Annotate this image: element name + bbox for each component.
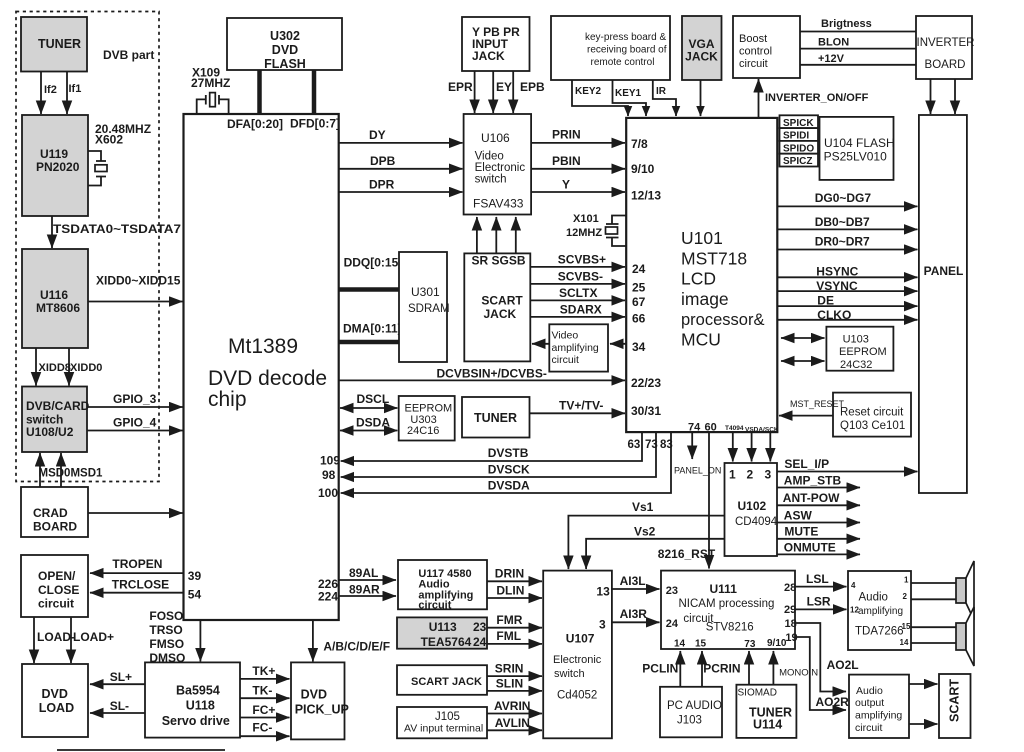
svg-text:U118: U118 — [186, 699, 215, 713]
svg-text:DCVBSIN+/DCVBS-: DCVBSIN+/DCVBS- — [437, 367, 547, 381]
svg-text:processor&: processor& — [681, 311, 764, 329]
svg-text:67: 67 — [632, 295, 646, 309]
svg-text:Mt1389: Mt1389 — [228, 335, 298, 358]
svg-text:SCART: SCART — [481, 293, 523, 307]
svg-text:34: 34 — [632, 340, 646, 354]
jack J105 AV input terminal — [397, 707, 487, 738]
amplifier TDA7266 Audio amplifying — [848, 571, 911, 650]
wire DG0~DG7 — [777, 191, 917, 206]
wire 89AR — [339, 583, 396, 597]
wire PBIN — [531, 154, 625, 169]
tuner TUNER (DVB) — [21, 17, 87, 72]
svg-text:INVERTER_ON/OFF: INVERTER_ON/OFF — [765, 92, 869, 104]
wire speaker1 pin2 — [911, 598, 956, 600]
wire Vs1 — [568, 500, 724, 569]
svg-text:TK+: TK+ — [252, 664, 275, 678]
wire GPIO_4 — [87, 416, 183, 431]
svg-text:9/10: 9/10 — [631, 162, 655, 176]
tuner U114 — [736, 685, 796, 738]
svg-text:DPR: DPR — [369, 178, 395, 192]
bus DMA[0:11] — [339, 322, 402, 343]
svg-text:AMP_STB: AMP_STB — [784, 473, 842, 487]
svg-text:TRCLOSE: TRCLOSE — [112, 578, 169, 592]
IC U119 PN2020 — [22, 115, 88, 216]
svg-text:circuit: circuit — [855, 722, 883, 734]
svg-text:DE: DE — [817, 294, 834, 308]
svg-text:DVD decode: DVD decode — [208, 367, 327, 390]
wire speaker1 pin1 — [911, 582, 956, 584]
eeprom U303 24C16 — [399, 396, 455, 441]
wire FC+ — [240, 703, 290, 718]
svg-text:DVSTB: DVSTB — [488, 446, 529, 460]
svg-text:TUNER: TUNER — [38, 37, 81, 51]
wire PCLIN — [642, 651, 680, 687]
svg-text:SCVBS+: SCVBS+ — [558, 252, 606, 266]
svg-text:DLIN: DLIN — [496, 584, 524, 598]
wire speaker2 pin15 — [911, 626, 956, 628]
wire SG — [495, 217, 497, 253]
speaker bottom — [956, 607, 974, 666]
svg-text:Brigtness: Brigtness — [821, 18, 872, 30]
svg-text:Ba5954: Ba5954 — [176, 684, 220, 698]
circuit Reset Q103 Ce101 — [833, 393, 911, 437]
svg-text:89AL: 89AL — [349, 566, 378, 580]
svg-text:24C16: 24C16 — [407, 425, 439, 437]
svg-text:AI3R: AI3R — [620, 607, 648, 621]
svg-text:FC-: FC- — [252, 721, 272, 735]
svg-text:JACK: JACK — [472, 49, 505, 63]
wire inverter to panel right — [954, 79, 956, 114]
svg-text:SR SGSB: SR SGSB — [472, 254, 526, 268]
svg-text:Audio: Audio — [856, 685, 883, 697]
wire U102 pin3 — [769, 432, 771, 461]
pin cell SPICZ — [780, 154, 819, 168]
svg-text:39: 39 — [188, 569, 202, 583]
wire EPR — [448, 71, 475, 113]
wire DSDA — [340, 416, 397, 431]
svg-text:ASW: ASW — [784, 508, 813, 522]
svg-text:CLKO: CLKO — [817, 308, 851, 322]
svg-text:4: 4 — [851, 581, 856, 590]
svg-text:TK-: TK- — [252, 684, 272, 698]
svg-text:23: 23 — [666, 585, 678, 597]
wire FOSO TRSO FMSO DMSO — [149, 609, 200, 665]
svg-text:PN2020: PN2020 — [36, 160, 80, 174]
svg-text:28: 28 — [784, 582, 796, 594]
jack SCART (output) — [939, 674, 971, 738]
svg-text:circuit: circuit — [552, 354, 580, 366]
wire Y — [531, 178, 625, 193]
svg-text:DB0~DB7: DB0~DB7 — [815, 215, 870, 229]
svg-text:GPIO_3: GPIO_3 — [113, 392, 157, 406]
svg-text:BOARD: BOARD — [33, 520, 77, 534]
svg-text:12MHZ: 12MHZ — [566, 227, 602, 239]
wire SRIN — [487, 662, 542, 677]
wire SB — [515, 217, 517, 253]
svg-text:NICAM processing: NICAM processing — [679, 598, 775, 610]
svg-text:SIOMAD: SIOMAD — [738, 688, 777, 699]
wire U103 bus lower — [781, 360, 825, 362]
svg-text:24: 24 — [666, 618, 679, 630]
board CRAD BOARD — [21, 487, 88, 537]
svg-text:LSR: LSR — [807, 595, 831, 609]
pin cell SPIDO — [780, 141, 819, 155]
svg-text:DVB part: DVB part — [103, 48, 154, 62]
svg-text:TUNER: TUNER — [474, 411, 517, 425]
jack SCART JACK (audio) — [397, 665, 487, 695]
svg-text:U116: U116 — [40, 288, 68, 302]
shift register U102 CD4094 — [725, 463, 778, 556]
svg-text:7/8: 7/8 — [631, 137, 648, 151]
svg-text:image: image — [681, 289, 729, 309]
svg-text:U111: U111 — [710, 582, 738, 596]
driver Ba5954 U118 Servo drive — [145, 662, 240, 737]
svg-text:DFD[0:7]: DFD[0:7] — [290, 117, 340, 131]
wire FMR — [487, 613, 542, 628]
wire XIDD8 — [36, 348, 71, 386]
svg-text:PBIN: PBIN — [552, 154, 581, 168]
wire PANEL_ON — [674, 432, 721, 475]
IC U116 MT8606 — [22, 249, 88, 348]
wire TRCLOSE — [90, 578, 184, 593]
circuit Audio output amplifying — [849, 675, 909, 738]
svg-text:MSD0MSD1: MSD0MSD1 — [39, 468, 104, 480]
wire XIDD0 — [69, 348, 102, 386]
svg-text:1: 1 — [729, 468, 736, 482]
svg-text:LCD: LCD — [681, 269, 716, 289]
svg-text:2: 2 — [747, 468, 754, 482]
wire inverter to panel left — [930, 79, 932, 114]
svg-text:24: 24 — [473, 635, 487, 649]
svg-text:CD4094: CD4094 — [735, 516, 778, 528]
svg-text:13: 13 — [596, 585, 610, 599]
svg-text:AVLIN: AVLIN — [495, 716, 530, 730]
svg-text:73: 73 — [744, 639, 756, 650]
svg-text:DDQ[0:15]: DDQ[0:15] — [344, 256, 403, 270]
svg-text:DY: DY — [369, 128, 386, 142]
svg-text:Audio: Audio — [859, 592, 888, 604]
svg-text:U103: U103 — [843, 334, 869, 346]
wire CLKO — [777, 308, 917, 322]
svg-text:output: output — [855, 697, 884, 709]
svg-text:SDARX: SDARX — [560, 302, 602, 316]
svg-text:3: 3 — [599, 618, 606, 632]
svg-text:19: 19 — [785, 632, 797, 644]
svg-text:control: control — [739, 46, 772, 58]
svg-text:circuit: circuit — [739, 58, 768, 70]
svg-text:amplifying: amplifying — [855, 710, 902, 722]
wire DR0~DR7 — [777, 234, 917, 249]
circuit Boost control — [733, 16, 800, 78]
svg-text:MCU: MCU — [681, 330, 721, 350]
pickup DVD PICK_UP — [291, 662, 349, 739]
svg-text:U113: U113 — [429, 620, 457, 634]
svg-text:U301: U301 — [411, 285, 440, 299]
wire ANT-POW — [777, 491, 860, 505]
svg-text:SCART: SCART — [948, 679, 962, 722]
wire SLIN — [487, 677, 542, 691]
sdram U301 SDRAM — [399, 252, 450, 362]
wire EY — [493, 71, 512, 113]
svg-text:27MHZ: 27MHZ — [191, 76, 230, 90]
svg-text:DVD: DVD — [301, 688, 327, 702]
svg-text:If2: If2 — [44, 84, 57, 96]
wire XIDD0~XIDD15 — [88, 274, 183, 302]
wire LOAD- — [34, 617, 75, 663]
wire Brigtness — [800, 18, 916, 32]
wire MSD0 — [39, 453, 41, 487]
svg-text:DVSCK: DVSCK — [488, 463, 530, 477]
wire U102 pin1 — [732, 432, 734, 461]
wire DRIN — [487, 567, 542, 582]
svg-text:EPR: EPR — [448, 80, 473, 94]
svg-text:TV+/TV-: TV+/TV- — [559, 399, 603, 413]
wire AVRIN — [487, 699, 542, 714]
svg-text:VSDA/SCK: VSDA/SCK — [745, 427, 779, 434]
wire U102 pin2 — [751, 432, 753, 461]
wire AI3L — [612, 574, 660, 589]
wire FML — [487, 629, 542, 644]
svg-text:TSDATA0~TSDATA7: TSDATA0~TSDATA7 — [53, 222, 181, 236]
wire PCRIN — [702, 651, 741, 687]
svg-text:DR0~DR7: DR0~DR7 — [815, 234, 870, 248]
wire audio out to scart upper — [909, 683, 938, 685]
wire U103 bus upper — [781, 337, 825, 339]
svg-text:CLOSE: CLOSE — [38, 583, 79, 597]
wire SCVBS- — [530, 269, 625, 284]
wire MSD1 — [39, 453, 104, 487]
svg-text:DFA[0:20]: DFA[0:20] — [227, 117, 283, 131]
svg-text:JACK: JACK — [685, 50, 718, 64]
wire speaker2 pin14 — [911, 642, 956, 644]
svg-text:ONMUTE: ONMUTE — [784, 540, 836, 554]
wire DLIN — [487, 584, 542, 599]
jack PC AUDIO J103 — [660, 687, 722, 738]
wire SIOMAD to pin73 — [748, 651, 750, 685]
tuner U113 TEA5764 — [397, 617, 487, 649]
svg-text:SL+: SL+ — [110, 670, 132, 684]
svg-text:24: 24 — [632, 262, 646, 276]
border bottom line — [57, 749, 225, 751]
svg-text:XIDD0: XIDD0 — [70, 362, 102, 374]
svg-text:Reset circuit: Reset circuit — [840, 407, 904, 419]
svg-text:8216_RST: 8216_RST — [658, 547, 716, 561]
svg-text:TROPEN: TROPEN — [112, 557, 162, 571]
svg-text:SEL_I/P: SEL_I/P — [784, 457, 829, 471]
svg-text:KEY2: KEY2 — [575, 86, 602, 97]
svg-text:TEA5764: TEA5764 — [421, 635, 472, 649]
pin cell SPIDI — [780, 128, 819, 142]
svg-text:24C32: 24C32 — [840, 359, 872, 371]
speaker top — [956, 561, 974, 620]
bus DFA to U302 — [257, 70, 262, 114]
wire KEY1 — [613, 80, 647, 116]
svg-text:MT8606: MT8606 — [36, 301, 80, 315]
wire +12V — [800, 53, 916, 65]
svg-text:X602: X602 — [95, 133, 123, 147]
svg-text:LSL: LSL — [806, 572, 829, 586]
wire EPB — [513, 71, 545, 113]
svg-text:FMR: FMR — [496, 613, 522, 627]
svg-text:U102: U102 — [738, 499, 767, 513]
circuit Video amplifying — [549, 324, 608, 371]
svg-text:PC AUDIO: PC AUDIO — [667, 700, 722, 712]
svg-text:VSYNC: VSYNC — [816, 279, 858, 293]
svg-text:AV input terminal: AV input terminal — [404, 723, 483, 735]
wire TROPEN — [90, 557, 184, 573]
svg-text:AI3L: AI3L — [620, 574, 646, 588]
wire SEL_I/P — [777, 457, 918, 472]
svg-text:FC+: FC+ — [252, 703, 275, 717]
wire If1 — [67, 72, 81, 115]
svg-text:key-press board &: key-press board & — [585, 32, 666, 43]
svg-text:XIDD8: XIDD8 — [39, 362, 71, 374]
svg-text:remote control: remote control — [591, 57, 655, 68]
svg-text:FSAV433: FSAV433 — [473, 197, 524, 211]
svg-text:SCLTX: SCLTX — [559, 286, 597, 300]
svg-text:SCVBS-: SCVBS- — [558, 269, 603, 283]
svg-text:GPIO_4: GPIO_4 — [113, 416, 157, 430]
svg-text:TRSO: TRSO — [149, 623, 182, 637]
wire LOAD+ — [71, 617, 114, 663]
svg-text:U101: U101 — [681, 228, 723, 248]
tuner TUNER (analog) — [462, 397, 530, 438]
wire TV+/TV- — [530, 399, 626, 414]
circuit U117 4580 Audio amplifying — [398, 560, 487, 612]
wire AMP_STB — [777, 473, 860, 487]
svg-text:CRAD: CRAD — [33, 506, 68, 520]
pin cell SPICK — [780, 115, 819, 129]
wire SL+ — [90, 670, 145, 684]
svg-text:KEY1: KEY1 — [615, 88, 642, 99]
wire MST_RESET — [779, 399, 845, 416]
svg-text:3: 3 — [765, 468, 772, 482]
svg-text:U106: U106 — [481, 131, 510, 145]
svg-text:SCART JACK: SCART JACK — [411, 676, 482, 688]
wire AVLIN — [487, 716, 542, 730]
wire AO2L — [795, 623, 859, 692]
wire ASW — [777, 508, 860, 522]
svg-text:STV8216: STV8216 — [706, 622, 754, 634]
svg-text:Y: Y — [562, 178, 570, 192]
svg-text:DVD: DVD — [42, 687, 68, 701]
svg-text:U107: U107 — [566, 632, 595, 646]
wire SL- — [90, 699, 145, 713]
svg-text:100: 100 — [318, 486, 338, 500]
svg-text:chip: chip — [208, 388, 247, 411]
wire TSDATA0~TSDATA7 — [52, 216, 181, 248]
wire CRAD BOARD to Mt1389 — [88, 512, 183, 514]
svg-text:74: 74 — [688, 422, 701, 434]
svg-text:HSYNC: HSYNC — [816, 265, 858, 279]
svg-text:29: 29 — [784, 604, 796, 616]
wire DVSCK — [341, 432, 656, 477]
svg-text:2: 2 — [903, 592, 908, 601]
svg-text:TDA7266: TDA7266 — [855, 626, 904, 638]
svg-text:MUTE: MUTE — [784, 525, 818, 539]
svg-text:EEPROM: EEPROM — [405, 403, 453, 415]
svg-text:22/23: 22/23 — [631, 376, 661, 390]
svg-text:switch: switch — [475, 174, 507, 186]
wire 89AL — [339, 566, 396, 580]
svg-text:DMA[0:11]: DMA[0:11] — [343, 322, 402, 336]
svg-text:DPB: DPB — [370, 154, 396, 168]
svg-text:PANEL_ON: PANEL_ON — [674, 466, 721, 476]
wire BLON — [800, 37, 916, 49]
wire VGA JACK to U101 — [700, 80, 702, 116]
svg-text:J103: J103 — [677, 715, 702, 727]
wire TK- — [240, 684, 290, 699]
board PANEL — [919, 115, 967, 493]
svg-text:109: 109 — [320, 454, 340, 468]
svg-text:U104 FLASH: U104 FLASH — [824, 136, 895, 150]
pin labels 63 73 83 — [628, 439, 673, 451]
svg-text:AO2R: AO2R — [816, 695, 850, 709]
svg-text:X101: X101 — [573, 213, 599, 225]
wire MONOIN to pin9/10 — [773, 651, 818, 685]
svg-text:BLON: BLON — [818, 37, 849, 49]
svg-text:SDRAM: SDRAM — [408, 303, 450, 315]
crystal X109 27MHZ — [191, 66, 230, 114]
svg-text:EPB: EPB — [520, 80, 545, 94]
svg-text:98: 98 — [322, 468, 336, 482]
svg-text:Vs2: Vs2 — [634, 525, 656, 539]
svg-text:SPIDO: SPIDO — [783, 143, 814, 154]
bus DFD to U302 — [312, 70, 317, 114]
svg-text:25: 25 — [632, 281, 646, 295]
svg-text:1: 1 — [904, 576, 909, 585]
wire ONMUTE — [777, 540, 860, 554]
wire FC- — [240, 721, 290, 737]
svg-text:18: 18 — [785, 618, 797, 630]
svg-text:PS25LV010: PS25LV010 — [824, 150, 887, 164]
svg-text:amplifying: amplifying — [552, 342, 599, 354]
svg-text:EEPROM: EEPROM — [839, 346, 887, 358]
svg-text:XIDD0~XIDD15: XIDD0~XIDD15 — [96, 274, 181, 288]
wire video amp to scart — [532, 343, 549, 345]
svg-text:SPIDI: SPIDI — [783, 131, 809, 142]
wire DSCL — [340, 392, 397, 408]
wire SR — [476, 217, 478, 253]
DVB part dashed boundary — [16, 12, 159, 482]
flash U302 DVD FLASH — [227, 18, 342, 71]
svg-text:9/10: 9/10 — [767, 638, 787, 649]
jack VGA JACK — [682, 16, 722, 80]
svg-text:AO2L: AO2L — [827, 658, 859, 672]
svg-text:A/B/C/D/E/F: A/B/C/D/E/F — [323, 640, 390, 654]
svg-text:U119: U119 — [40, 147, 68, 161]
svg-text:DSCL: DSCL — [357, 392, 390, 406]
wire DVSTB — [341, 432, 642, 461]
wire VSYNC — [777, 279, 917, 293]
svg-text:DVB/CARD: DVB/CARD — [26, 399, 90, 413]
svg-text:receiving board of: receiving board of — [587, 45, 667, 56]
chip Mt1389 DVD decode chip — [184, 114, 341, 620]
wire DPB — [339, 154, 463, 169]
wire 8216_RST — [658, 432, 716, 568]
svg-text:Video: Video — [552, 330, 579, 342]
svg-text:FOSO: FOSO — [149, 609, 183, 623]
flash U104 PS25LV010 — [820, 117, 895, 180]
svg-text:15: 15 — [695, 639, 707, 650]
svg-text:PRIN: PRIN — [552, 128, 581, 142]
switch U107 Cd4052 — [543, 571, 612, 739]
wire IR — [653, 80, 676, 116]
svg-text:63: 63 — [628, 439, 641, 451]
svg-text:14: 14 — [674, 639, 686, 650]
svg-text:BOARD: BOARD — [925, 59, 966, 71]
svg-text:60: 60 — [705, 422, 717, 434]
